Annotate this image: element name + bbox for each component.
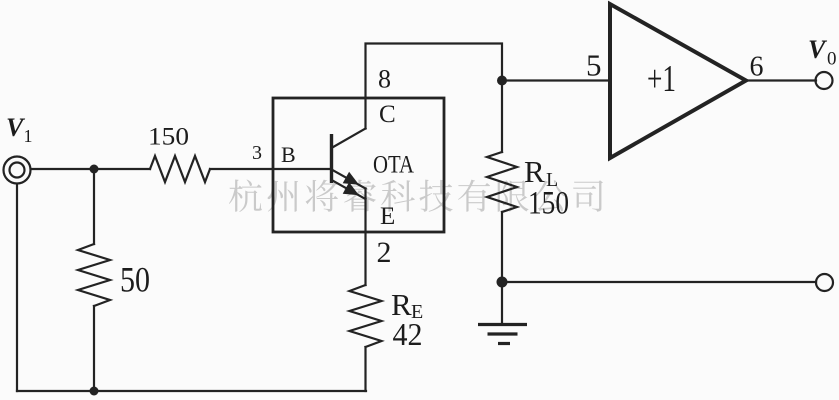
ground symbol <box>478 325 527 344</box>
wire op-amp output to terminal V0 <box>746 79 816 81</box>
label V0 <box>808 35 837 70</box>
wire junction down to resistor 50 <box>93 169 95 244</box>
wire resistor 50 to bottom rail <box>93 306 95 391</box>
svg-text:0: 0 <box>827 49 837 70</box>
wire RE emitter lead <box>364 189 366 286</box>
svg-text:C: C <box>379 101 396 128</box>
svg-text:42: 42 <box>393 316 423 352</box>
wire left vertical from V1 <box>16 184 18 391</box>
svg-text:R: R <box>524 154 545 189</box>
transistor Q1 emitter lead 2 <box>332 180 366 199</box>
OTA package box U1 <box>273 98 444 232</box>
label RL <box>524 154 558 191</box>
transistor Q1 collector lead <box>332 129 366 149</box>
wire resistor 150 to OTA pin 3 <box>210 168 330 170</box>
transistor Q1 emitter arrowhead 1 <box>343 172 359 185</box>
wire collector pin 8 up and over to op-amp node <box>366 44 503 129</box>
svg-text:50: 50 <box>120 260 150 300</box>
svg-text:8: 8 <box>378 65 391 94</box>
resistor RL top lead <box>501 81 503 153</box>
terminal V0 output <box>816 72 833 89</box>
svg-text:6: 6 <box>750 52 764 83</box>
wire node to op-amp pin 5 <box>502 79 610 81</box>
wire bottom rail <box>17 390 366 392</box>
node junction op-amp input / RL <box>497 76 507 86</box>
transistor Q1 base bar <box>330 134 333 183</box>
node junction RL / ground / output return <box>497 277 508 288</box>
svg-text:1: 1 <box>24 126 33 146</box>
op-amp U2 unity buffer <box>610 4 746 158</box>
svg-text:150: 150 <box>528 186 569 222</box>
svg-text:2: 2 <box>377 236 392 269</box>
node junction bottom rail <box>90 387 99 396</box>
wire return rail to output terminal <box>502 281 816 283</box>
resistor RL <box>487 152 517 212</box>
wire input to resistor 150 <box>31 168 150 170</box>
watermark text 杭州将睿科技有限公司 <box>229 179 603 211</box>
svg-text:B: B <box>281 142 296 167</box>
label RE <box>391 287 423 323</box>
resistor RE <box>350 285 382 347</box>
node junction input divider <box>90 165 99 174</box>
resistor 150 (series) <box>150 156 210 182</box>
svg-text:+1: +1 <box>647 58 676 100</box>
resistor 50 (shunt) <box>78 244 110 306</box>
transistor Q1 emitter arrowhead 2 <box>343 182 359 195</box>
svg-text:V: V <box>808 35 828 64</box>
transistor Q1 emitter lead 1 <box>332 170 366 189</box>
svg-text:E: E <box>380 203 395 230</box>
label V1 <box>6 113 33 146</box>
terminal output return (lower) <box>816 274 833 291</box>
svg-text:OTA: OTA <box>373 152 414 179</box>
ground lead <box>501 282 503 324</box>
resistor RL bottom lead <box>501 212 503 282</box>
terminal V1 input <box>4 157 31 184</box>
svg-text:150: 150 <box>148 124 189 151</box>
svg-text:3: 3 <box>252 142 262 164</box>
resistor RE bottom lead <box>364 347 366 391</box>
svg-text:5: 5 <box>586 48 602 83</box>
